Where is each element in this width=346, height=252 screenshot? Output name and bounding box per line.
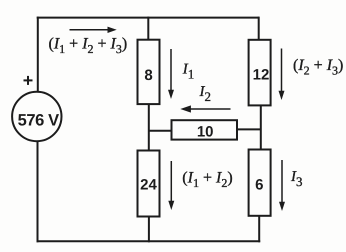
svg-text:6: 6 xyxy=(255,177,263,194)
svg-text:(I2 + I3): (I2 + I3) xyxy=(293,57,343,78)
svg-text:10: 10 xyxy=(197,124,214,141)
svg-text:I1: I1 xyxy=(182,62,195,82)
svg-text:(I1 + I2 + I3): (I1 + I2 + I3) xyxy=(49,36,128,57)
svg-text:12: 12 xyxy=(253,66,270,83)
svg-text:(I1 + I2): (I1 + I2) xyxy=(182,170,232,191)
svg-text:24: 24 xyxy=(140,176,157,193)
svg-text:I2: I2 xyxy=(199,84,212,104)
svg-text:8: 8 xyxy=(144,67,152,84)
svg-text:576 V: 576 V xyxy=(18,111,60,129)
svg-text:I3: I3 xyxy=(290,169,303,189)
